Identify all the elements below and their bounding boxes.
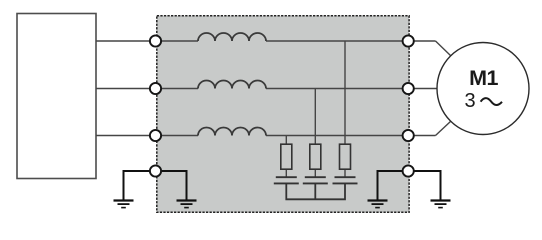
svg-text:3: 3: [464, 90, 475, 112]
svg-text:M1: M1: [469, 66, 498, 90]
